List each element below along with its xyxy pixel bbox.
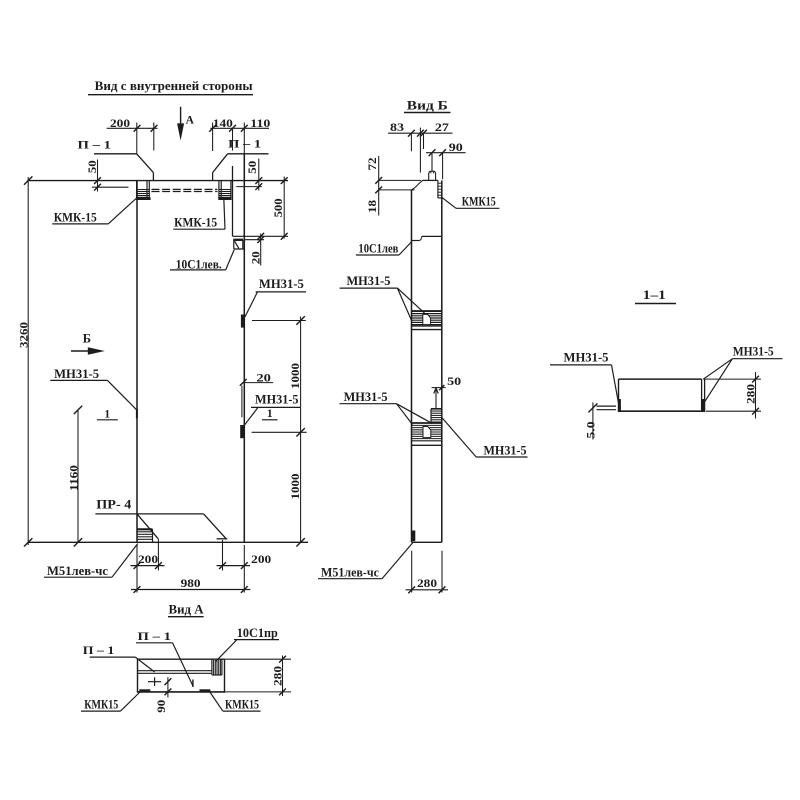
svg-text:МН31-5: МН31-5 — [344, 390, 388, 404]
svg-text:50: 50 — [447, 374, 461, 388]
svg-text:МН31-5: МН31-5 — [564, 350, 609, 364]
svg-text:П – 1: П – 1 — [83, 645, 115, 657]
svg-text:КМК15: КМК15 — [225, 698, 259, 712]
svg-text:500: 500 — [271, 198, 285, 217]
svg-text:МН31-5: МН31-5 — [733, 344, 774, 358]
svg-text:72: 72 — [365, 158, 379, 171]
svg-text:20: 20 — [256, 370, 271, 384]
svg-text:МН31-5: МН31-5 — [484, 444, 527, 458]
svg-text:1000: 1000 — [288, 363, 302, 389]
svg-text:90: 90 — [154, 700, 168, 713]
svg-text:КМК-15: КМК-15 — [174, 216, 217, 230]
svg-text:3260: 3260 — [17, 322, 31, 348]
svg-text:1000: 1000 — [288, 474, 302, 500]
svg-text:КМК15: КМК15 — [84, 698, 118, 712]
svg-text:18: 18 — [365, 200, 379, 213]
svg-text:МН31-5: МН31-5 — [255, 393, 299, 407]
svg-text:М51лев-чс: М51лев-чс — [47, 564, 108, 578]
svg-text:МН31-5: МН31-5 — [347, 274, 391, 288]
svg-text:Б: Б — [83, 331, 91, 345]
svg-text:200: 200 — [138, 552, 158, 566]
svg-text:10С1пр: 10С1пр — [237, 626, 278, 640]
svg-text:980: 980 — [181, 576, 201, 590]
svg-text:1–1: 1–1 — [643, 288, 666, 302]
svg-text:Вид Б: Вид Б — [407, 97, 448, 112]
svg-text:А: А — [186, 115, 195, 127]
svg-text:20: 20 — [249, 251, 263, 264]
svg-text:10С1лев.: 10С1лев. — [176, 258, 222, 272]
svg-text:200: 200 — [110, 116, 130, 130]
svg-text:50: 50 — [85, 160, 99, 173]
svg-text:Вид А: Вид А — [169, 602, 205, 617]
svg-text:КМК-15: КМК-15 — [54, 210, 97, 224]
svg-text:1: 1 — [267, 408, 273, 420]
svg-text:Вид с внутренней стороны: Вид с внутренней стороны — [95, 78, 253, 93]
svg-text:50: 50 — [245, 161, 259, 174]
svg-text:П – 1: П – 1 — [228, 138, 261, 150]
svg-text:280: 280 — [417, 576, 437, 590]
svg-text:200: 200 — [251, 552, 271, 566]
svg-text:5.0: 5.0 — [583, 422, 597, 439]
svg-text:ПР- 4: ПР- 4 — [96, 498, 132, 512]
svg-text:280: 280 — [744, 384, 758, 404]
svg-text:10С1лев: 10С1лев — [358, 242, 398, 256]
svg-text:83: 83 — [390, 120, 404, 134]
svg-text:1160: 1160 — [66, 465, 80, 491]
svg-text:П – 1: П – 1 — [78, 140, 112, 152]
svg-text:МН31-5: МН31-5 — [54, 367, 99, 381]
svg-text:90: 90 — [449, 140, 463, 154]
svg-text:МН31-5: МН31-5 — [259, 277, 304, 291]
svg-text:М51лев-чс: М51лев-чс — [321, 566, 379, 580]
svg-text:П – 1: П – 1 — [138, 631, 172, 643]
svg-text:280: 280 — [271, 666, 285, 686]
svg-text:110: 110 — [250, 116, 270, 130]
svg-text:27: 27 — [435, 120, 449, 134]
svg-text:140: 140 — [213, 116, 233, 130]
svg-text:КМК15: КМК15 — [462, 194, 496, 208]
svg-text:1: 1 — [104, 408, 110, 420]
